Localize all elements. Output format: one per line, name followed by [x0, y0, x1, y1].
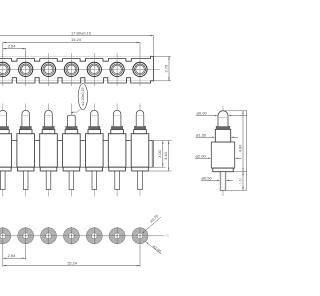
- svg-text:⌀2.00: ⌀2.00: [196, 153, 207, 158]
- svg-text:⌀1.50: ⌀1.50: [196, 132, 207, 137]
- svg-text:17.80±0.15: 17.80±0.15: [71, 30, 92, 35]
- svg-text:15.24: 15.24: [71, 37, 82, 42]
- svg-text:2.54: 2.54: [8, 253, 17, 258]
- svg-text:2.54: 2.54: [8, 43, 17, 48]
- svg-text:⌀2.20±0.15: ⌀2.20±0.15: [81, 87, 85, 105]
- svg-text:1.60: 1.60: [238, 178, 242, 185]
- svg-text:⌀0.50: ⌀0.50: [202, 175, 213, 180]
- svg-text:⌀0.90: ⌀0.90: [197, 111, 208, 116]
- svg-text:15.24: 15.24: [67, 260, 78, 265]
- svg-text:2.70: 2.70: [163, 64, 168, 73]
- svg-text:4.90: 4.90: [237, 144, 242, 153]
- svg-text:3.00: 3.00: [157, 149, 162, 158]
- svg-text:3.40: 3.40: [163, 151, 168, 160]
- svg-text:⌀0.50: ⌀0.50: [163, 233, 170, 237]
